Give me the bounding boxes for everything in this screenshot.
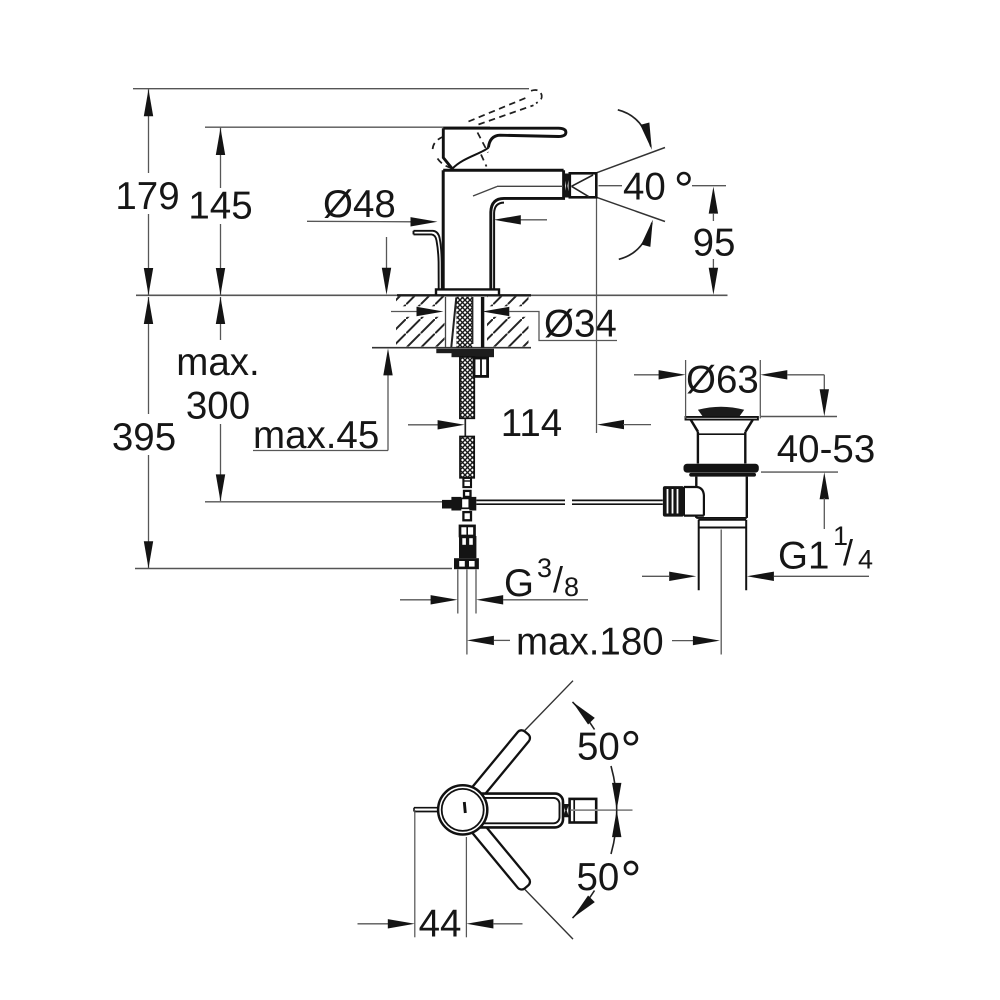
svg-text:G1: G1 (778, 535, 829, 578)
dimension o34 with stepped leader (391, 311, 420, 313)
svg-text:Ø34: Ø34 (544, 303, 617, 346)
handle base (443, 128, 452, 169)
40 degree fan lines (597, 148, 666, 173)
svg-text:/: / (843, 532, 853, 573)
dimension max.45 (386, 237, 388, 268)
svg-text:4: 4 (858, 545, 873, 575)
svg-text:95: 95 (693, 222, 736, 265)
dimension G3/8 (400, 599, 432, 601)
cap rim plate (686, 417, 758, 420)
center tick (464, 802, 465, 813)
mounting hole edges (445, 297, 447, 347)
svg-text:40: 40 (623, 166, 666, 209)
svg-text:8: 8 (564, 572, 579, 602)
aerator joint black (564, 174, 570, 198)
ref lines 40-53 (761, 416, 837, 418)
counter cross-section hatching (396, 297, 529, 347)
dimension max.180 (467, 636, 494, 645)
spout bore lines (473, 187, 497, 197)
svg-text:Ø48: Ø48 (323, 183, 396, 226)
dimension G1 1/4 (642, 575, 669, 577)
svg-text:300: 300 (186, 385, 250, 428)
check valve bottom nut (454, 558, 479, 569)
counter bottom line (372, 347, 531, 349)
svg-text:Ø63: Ø63 (686, 359, 759, 402)
50 deg radial lines (525, 681, 573, 731)
ref line (145 level) (205, 126, 490, 128)
dimension 395 (148, 297, 150, 568)
rod to valve (476, 499, 565, 501)
svg-text:50: 50 (577, 856, 620, 899)
piece below linkage (463, 512, 471, 520)
spout top view inner (472, 798, 560, 823)
flare neck (691, 420, 698, 432)
svg-text:179: 179 (115, 175, 179, 218)
extension line aerator down (596, 198, 598, 434)
dimension max.300 (220, 297, 222, 501)
washers under counter (436, 349, 494, 353)
coupling (698, 519, 746, 521)
nipple lines below (457, 569, 459, 613)
connector line (464, 418, 466, 436)
svg-text:44: 44 (419, 903, 462, 946)
knurled knob (663, 486, 684, 516)
ref line top (179 level) (133, 88, 529, 90)
wedge in hole (451, 298, 456, 348)
faucet body outline (443, 169, 563, 172)
dimension 114 (408, 424, 438, 426)
svg-text:max.: max. (176, 341, 259, 384)
bottom reference line (395) (135, 568, 452, 570)
dashed handle raised position (433, 90, 542, 168)
cylinder (697, 432, 699, 464)
upper hose (460, 357, 474, 418)
50 deg arcs lower (611, 810, 617, 854)
dimension 145 (220, 128, 222, 295)
handle lever solid (443, 128, 566, 147)
lever top view lower (50 deg) (469, 819, 532, 891)
hose end neck (463, 478, 471, 487)
svg-text:50: 50 (577, 726, 620, 769)
deck surface line (136, 294, 728, 296)
pop-up linkage (442, 500, 452, 509)
small piece above linkage (464, 491, 471, 497)
base plate (436, 289, 499, 295)
svg-text:114: 114 (501, 402, 562, 445)
dimension o63 (685, 360, 687, 418)
aerator joint top view (563, 804, 569, 817)
threaded shank (457, 297, 473, 348)
svg-text:395: 395 (112, 416, 176, 459)
svg-text:3: 3 (537, 553, 552, 583)
valve body (695, 477, 697, 487)
drain center line (720, 530, 722, 655)
svg-text:G: G (504, 562, 534, 605)
side port (684, 487, 704, 496)
40 degree label (599, 185, 623, 187)
dimension 179 (148, 89, 150, 295)
40 degree arc arrows (618, 110, 651, 147)
lever top view upper (50 deg) (469, 728, 532, 800)
check valve body (459, 536, 476, 558)
max300 bottom ref line / rod line (205, 501, 443, 503)
svg-text:max.180: max.180 (516, 621, 664, 664)
svg-text:40-53: 40-53 (777, 428, 875, 471)
dome cap (698, 407, 744, 417)
aerator top view (570, 799, 597, 823)
svg-text:145: 145 (188, 185, 252, 228)
spout top view outer (470, 794, 563, 828)
pull rod stub top view (414, 807, 439, 809)
dimension 40-53 (823, 375, 825, 391)
lower hose (460, 437, 474, 478)
check valve top nut (460, 526, 475, 536)
aerator box (570, 173, 597, 197)
pull rod above deck (414, 231, 442, 289)
svg-text:/: / (553, 559, 563, 600)
seal flange (684, 464, 759, 473)
rod guide fitting (474, 358, 488, 376)
top view centerline (571, 809, 633, 811)
dimension 44 (414, 810, 416, 937)
tailpipe (698, 520, 700, 591)
hub circle (438, 785, 487, 834)
50 deg arcs upper (611, 766, 617, 810)
dimension 95 (709, 187, 718, 214)
